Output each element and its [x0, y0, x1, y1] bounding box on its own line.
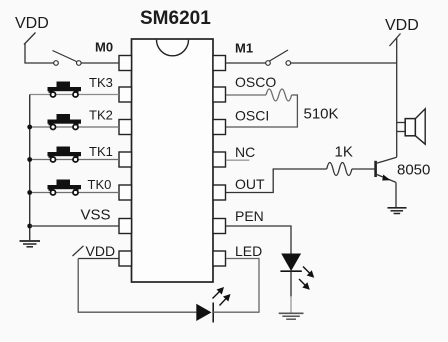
svg-text:M1: M1	[235, 41, 253, 56]
switch S2 (M1)	[266, 50, 291, 65]
svg-text:PEN: PEN	[235, 208, 264, 224]
pin M1 (right 1)	[213, 56, 226, 71]
ground (left bus)	[20, 241, 41, 247]
pin PEN (right 6)	[213, 219, 226, 234]
pushbutton TK2	[48, 114, 82, 130]
wire VSS row	[30, 225, 119, 227]
wire D2 cathode to pin LED	[213, 259, 259, 313]
power VDD (top-left)	[15, 15, 49, 45]
power VDD (top-right)	[385, 17, 419, 46]
wire TK2 row	[30, 126, 119, 128]
pin TK0 (left 5)	[119, 185, 132, 200]
pushbutton TK0	[48, 180, 82, 196]
svg-text:510K: 510K	[304, 106, 339, 123]
pin TK1 (left 4)	[119, 152, 132, 167]
svg-text:TK0: TK0	[88, 177, 112, 192]
pin VSS (left 6)	[119, 219, 132, 234]
transistor Q1 8050	[376, 157, 397, 182]
svg-text:VSS: VSS	[81, 207, 111, 224]
svg-text:VDD: VDD	[86, 243, 116, 259]
svg-text:SM6201: SM6201	[140, 8, 211, 29]
wire pin M1 to switch	[226, 62, 266, 64]
svg-text:OSCI: OSCI	[235, 108, 269, 124]
power VDD (bottom-left)	[73, 243, 116, 259]
LED D1 light arrows	[299, 267, 314, 290]
pin TK2 (left 3)	[119, 120, 132, 135]
wire resistor 1K to base	[352, 168, 376, 170]
wire pin OSCO to resistor	[226, 94, 266, 96]
svg-text:OSCO: OSCO	[235, 74, 276, 90]
wire resistor to OSCI	[226, 95, 297, 127]
svg-text:TK3: TK3	[89, 75, 113, 90]
wire NC stub	[226, 159, 249, 161]
pin M0 (left 1)	[119, 56, 132, 71]
wire left bus vertical	[29, 95, 31, 241]
junction VSS	[27, 224, 32, 229]
wire TK0 row	[30, 192, 119, 194]
pin VDD (left 7)	[119, 251, 132, 266]
IC U1 body SM6201	[132, 39, 214, 282]
switch S1 (M0)	[53, 51, 82, 66]
LED D1 (PEN)	[280, 254, 301, 272]
ground (LED D1)	[279, 313, 304, 319]
wire speaker terminals	[397, 123, 406, 158]
LED D2 light arrows	[213, 287, 231, 306]
LED D2 (bottom)	[196, 303, 213, 323]
resistor R2 1K (wavy)	[327, 163, 352, 176]
wire VDD down to LED D2	[78, 259, 196, 313]
svg-text:OUT: OUT	[235, 176, 265, 192]
pin OSCI (right 3)	[213, 120, 226, 135]
junction TK2	[27, 125, 32, 130]
junction TK1	[27, 157, 32, 162]
wire VDD rail down to speaker	[396, 38, 398, 123]
svg-text:LED: LED	[235, 243, 262, 259]
svg-text:VDD: VDD	[15, 15, 49, 32]
junction TK0	[27, 190, 32, 195]
wire VDD to pin VDD	[78, 258, 119, 260]
pin LED (right 7)	[213, 251, 226, 266]
wire M1 switch to VDD rail	[291, 62, 397, 64]
svg-text:VDD: VDD	[385, 17, 419, 34]
wire D1 cathode to ground	[290, 271, 292, 297]
resistor R1 510K (wavy)	[266, 89, 292, 101]
svg-text:1K: 1K	[335, 144, 353, 161]
wire pin OUT to resistor 1K	[226, 169, 327, 193]
svg-text:TK2: TK2	[89, 108, 113, 123]
wire M0 switch to pin	[81, 62, 119, 64]
svg-text:M0: M0	[95, 40, 113, 55]
svg-text:TK1: TK1	[89, 144, 113, 159]
pushbutton TK1	[48, 147, 82, 163]
pin OSCO (right 2)	[213, 87, 226, 102]
wire emitter to ground	[395, 182, 397, 207]
pin OUT (right 5)	[213, 185, 226, 200]
wire TK3 row	[30, 94, 119, 96]
pin NC (right 4)	[213, 152, 226, 167]
wire pin PEN to LED D1	[226, 226, 291, 254]
ground (transistor emitter)	[388, 208, 407, 214]
svg-text:8050: 8050	[397, 162, 430, 179]
speaker LS1	[405, 109, 425, 144]
svg-text:NC: NC	[235, 144, 255, 160]
pushbutton TK3	[48, 82, 82, 98]
wire TK1 row	[30, 159, 119, 161]
pin TK3 (left 2)	[119, 87, 132, 102]
wire VDD to M0 switch	[25, 44, 54, 64]
